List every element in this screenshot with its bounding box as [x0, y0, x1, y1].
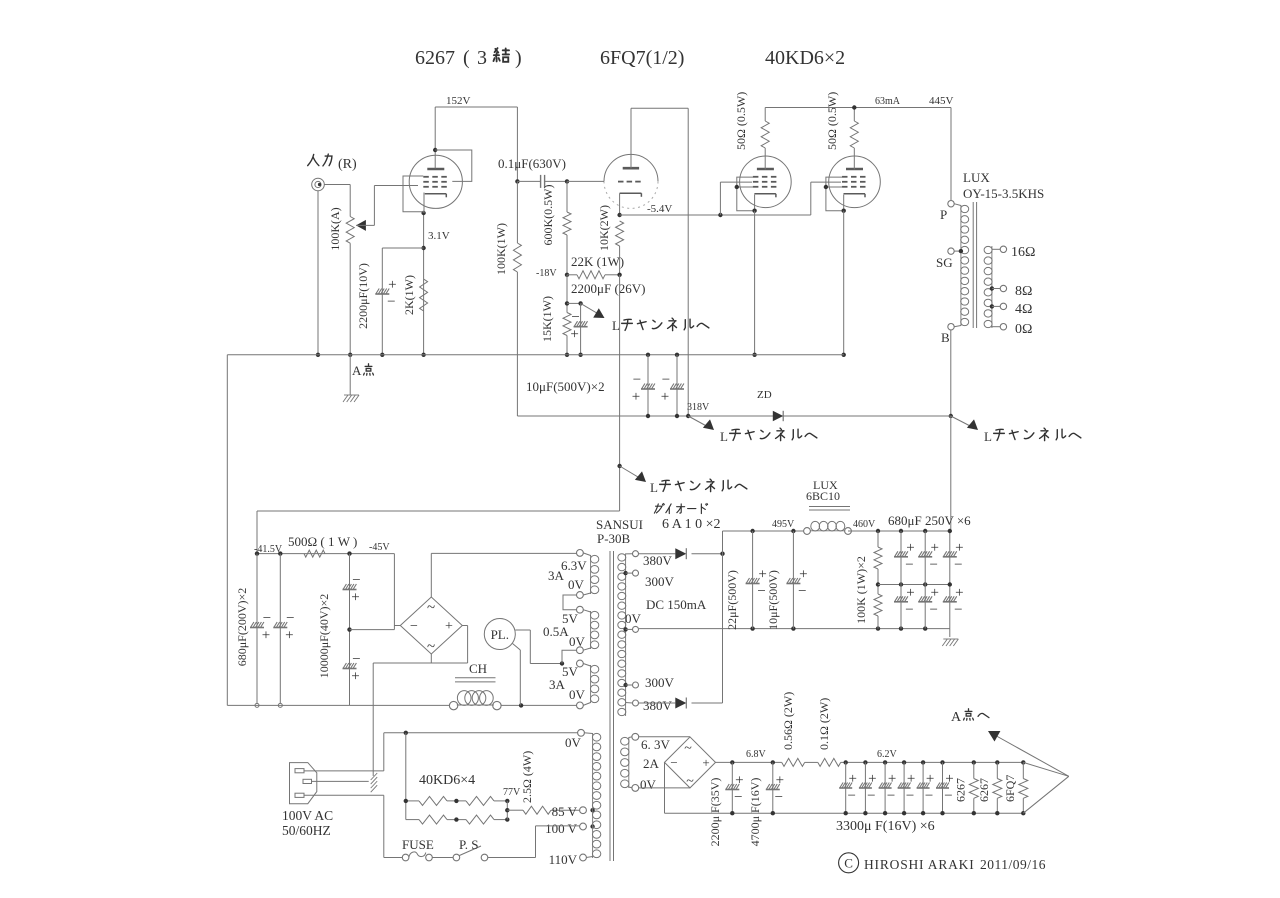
svg-text:+: + — [776, 773, 784, 789]
svg-text:~: ~ — [684, 741, 692, 756]
svg-text:(R): (R) — [338, 157, 357, 172]
svg-text:+: + — [351, 669, 359, 685]
svg-text:−: − — [286, 611, 294, 627]
svg-text:2011/09/16: 2011/09/16 — [980, 857, 1046, 872]
svg-text:-18V: -18V — [536, 268, 557, 279]
svg-text:+: + — [351, 590, 359, 606]
svg-text:LUX: LUX — [963, 170, 990, 185]
svg-text:−: − — [352, 652, 360, 668]
svg-text:0.1μF(630V): 0.1μF(630V) — [498, 156, 566, 171]
svg-text:460V: 460V — [853, 519, 876, 530]
svg-text:6267: 6267 — [415, 47, 455, 69]
svg-text:−: − — [905, 602, 913, 618]
svg-text:2K(1W): 2K(1W) — [402, 275, 416, 315]
svg-text:500Ω ( 1 W ): 500Ω ( 1 W ) — [288, 534, 357, 549]
svg-text:0.1Ω (2W): 0.1Ω (2W) — [817, 698, 831, 750]
svg-text:40KD6×4: 40KD6×4 — [419, 773, 475, 788]
svg-text:−: − — [662, 372, 670, 388]
svg-text:6.3V: 6.3V — [561, 558, 587, 573]
svg-text:300V: 300V — [645, 574, 675, 589]
svg-text:(: ( — [463, 47, 470, 69]
svg-text:−: − — [954, 602, 962, 618]
svg-text:+: + — [702, 755, 709, 770]
svg-text:+: + — [868, 771, 876, 787]
svg-text:−: − — [867, 788, 875, 804]
svg-text:−: − — [387, 294, 395, 310]
svg-text:680μF 250V ×6: 680μF 250V ×6 — [888, 513, 971, 528]
svg-text:100K(A): 100K(A) — [328, 207, 342, 250]
svg-text:−: − — [734, 790, 742, 806]
svg-text:−: − — [263, 611, 271, 627]
svg-text:P-30B: P-30B — [597, 531, 631, 546]
svg-text:−: − — [633, 372, 641, 388]
svg-text:+: + — [799, 567, 807, 583]
svg-text:+: + — [906, 585, 914, 601]
svg-text:DC 150mA: DC 150mA — [646, 597, 707, 612]
svg-text:+: + — [930, 585, 938, 601]
svg-text:−: − — [954, 557, 962, 573]
svg-text:-45V: -45V — [369, 542, 390, 553]
svg-text:+: + — [930, 540, 938, 556]
svg-text:6267: 6267 — [977, 778, 991, 802]
svg-text:6.8V: 6.8V — [746, 749, 767, 760]
svg-text:85 V: 85 V — [552, 804, 578, 819]
svg-text:3.1V: 3.1V — [428, 230, 450, 242]
svg-text:6. 3V: 6. 3V — [641, 737, 671, 752]
svg-text:): ) — [515, 47, 522, 69]
svg-text:−: − — [887, 788, 895, 804]
svg-text:380V: 380V — [643, 698, 673, 713]
svg-text:6FQ7: 6FQ7 — [1003, 775, 1017, 802]
svg-text:CH: CH — [469, 661, 487, 676]
svg-text:50/60HZ: 50/60HZ — [282, 823, 331, 838]
svg-text:10000μF(40V)×2: 10000μF(40V)×2 — [317, 594, 331, 679]
svg-text:+: + — [955, 540, 963, 556]
svg-text:4700μ F(16V): 4700μ F(16V) — [748, 778, 762, 847]
svg-text:+: + — [285, 628, 293, 644]
svg-text:63mA: 63mA — [875, 96, 901, 107]
svg-text:3: 3 — [477, 47, 487, 69]
svg-text:−: − — [929, 602, 937, 618]
svg-text:+: + — [926, 771, 934, 787]
svg-text:~: ~ — [427, 639, 435, 655]
svg-text:100 V: 100 V — [545, 821, 578, 836]
svg-text:152V: 152V — [446, 95, 471, 107]
svg-text:445V: 445V — [929, 95, 954, 107]
svg-text:−: − — [352, 573, 360, 589]
svg-text:SG: SG — [936, 255, 953, 270]
svg-text:10μF(500V): 10μF(500V) — [766, 570, 780, 630]
svg-text:3300μ F(16V) ×6: 3300μ F(16V) ×6 — [836, 819, 935, 834]
svg-text:+: + — [906, 540, 914, 556]
svg-text:−: − — [775, 790, 783, 806]
svg-text:2200μF(10V): 2200μF(10V) — [356, 263, 370, 329]
svg-text:22μF(500V): 22μF(500V) — [725, 570, 739, 630]
svg-text:−: − — [929, 557, 937, 573]
svg-text:0V: 0V — [565, 735, 582, 750]
svg-text:6.2V: 6.2V — [877, 749, 898, 760]
svg-text:3A: 3A — [548, 568, 565, 583]
svg-text:A: A — [951, 710, 962, 725]
svg-text:+: + — [735, 773, 743, 789]
svg-text:−: − — [798, 584, 806, 600]
svg-text:318V: 318V — [687, 402, 710, 413]
svg-text:P. S: P. S — [459, 837, 479, 852]
svg-text:2200μ F(35V): 2200μ F(35V) — [708, 778, 722, 847]
svg-text:8Ω: 8Ω — [1015, 284, 1032, 299]
svg-text:~: ~ — [427, 600, 435, 616]
svg-text:110V: 110V — [549, 852, 578, 867]
svg-text:P: P — [940, 207, 947, 222]
svg-text:600K(0.5W): 600K(0.5W) — [541, 185, 555, 246]
svg-text:HIROSHI ARAKI: HIROSHI ARAKI — [864, 857, 975, 872]
svg-text:−: − — [571, 310, 579, 326]
svg-text:+: + — [570, 327, 578, 343]
svg-text:495V: 495V — [772, 519, 795, 530]
svg-text:40KD6×2: 40KD6×2 — [765, 47, 845, 69]
svg-text:FUSE: FUSE — [402, 837, 434, 852]
svg-text:A: A — [352, 363, 362, 378]
svg-text:-5.4V: -5.4V — [647, 203, 672, 215]
svg-text:6267: 6267 — [953, 778, 967, 802]
svg-text:C: C — [844, 856, 853, 871]
svg-text:300V: 300V — [645, 675, 675, 690]
svg-text:OY-15-3.5KHS: OY-15-3.5KHS — [963, 186, 1044, 201]
svg-text:−: − — [906, 788, 914, 804]
svg-text:~: ~ — [686, 774, 694, 789]
svg-text:100K (1W)×2: 100K (1W)×2 — [854, 556, 868, 624]
svg-text:+: + — [907, 771, 915, 787]
svg-text:2200μF (26V): 2200μF (26V) — [571, 281, 646, 296]
svg-text:L: L — [650, 480, 658, 495]
svg-text:380V: 380V — [643, 553, 673, 568]
svg-text:−: − — [905, 557, 913, 573]
svg-text:3A: 3A — [549, 677, 566, 692]
svg-text:+: + — [955, 585, 963, 601]
svg-text:+: + — [388, 277, 396, 293]
svg-text:6FQ7(1/2): 6FQ7(1/2) — [600, 47, 684, 69]
svg-text:50Ω (0.5W): 50Ω (0.5W) — [825, 92, 839, 150]
svg-text:100K(1W): 100K(1W) — [494, 223, 508, 275]
svg-text:0.56Ω (2W): 0.56Ω (2W) — [781, 692, 795, 750]
svg-text:SANSUI: SANSUI — [596, 517, 643, 532]
svg-text:0V: 0V — [569, 687, 586, 702]
svg-text:PL.: PL. — [491, 627, 509, 642]
svg-text:0V: 0V — [569, 634, 586, 649]
svg-text:6 A 1 0 ×2: 6 A 1 0 ×2 — [662, 517, 720, 532]
svg-text:10K(2W): 10K(2W) — [597, 205, 611, 251]
svg-text:+: + — [661, 389, 669, 405]
svg-text:680μF(200V)×2: 680μF(200V)×2 — [235, 588, 249, 667]
svg-text:−: − — [847, 788, 855, 804]
svg-text:4Ω: 4Ω — [1015, 302, 1032, 317]
svg-text:−: − — [925, 788, 933, 804]
svg-text:ZD: ZD — [757, 389, 772, 401]
svg-text:-41.5V: -41.5V — [254, 544, 283, 555]
svg-text:0V: 0V — [625, 611, 642, 626]
svg-text:−: − — [410, 619, 418, 634]
svg-text:15K(1W): 15K(1W) — [540, 296, 554, 342]
svg-text:−: − — [757, 584, 765, 600]
svg-text:0.5A: 0.5A — [543, 624, 569, 639]
svg-text:+: + — [262, 628, 270, 644]
svg-text:L: L — [612, 318, 620, 333]
svg-text:0V: 0V — [568, 577, 585, 592]
svg-text:100V AC: 100V AC — [282, 808, 333, 823]
svg-text:50Ω (0.5W): 50Ω (0.5W) — [734, 92, 748, 150]
svg-text:10μF(500V)×2: 10μF(500V)×2 — [526, 379, 605, 394]
svg-text:−: − — [944, 788, 952, 804]
svg-text:+: + — [848, 771, 856, 787]
svg-text:B: B — [941, 330, 950, 345]
svg-text:L: L — [984, 429, 992, 444]
svg-text:2.5Ω (4W): 2.5Ω (4W) — [520, 751, 534, 803]
svg-text:6BC10: 6BC10 — [806, 489, 840, 503]
svg-text:L: L — [720, 429, 728, 444]
svg-text:−: − — [670, 755, 677, 770]
svg-text:0Ω: 0Ω — [1015, 322, 1032, 337]
svg-text:2A: 2A — [643, 756, 660, 771]
svg-text:77V: 77V — [503, 787, 521, 798]
svg-text:+: + — [632, 389, 640, 405]
svg-text:0V: 0V — [640, 777, 657, 792]
svg-text:+: + — [888, 771, 896, 787]
svg-text:22K (1W): 22K (1W) — [571, 254, 624, 269]
svg-text:16Ω: 16Ω — [1011, 245, 1035, 260]
svg-text:+: + — [445, 619, 453, 634]
